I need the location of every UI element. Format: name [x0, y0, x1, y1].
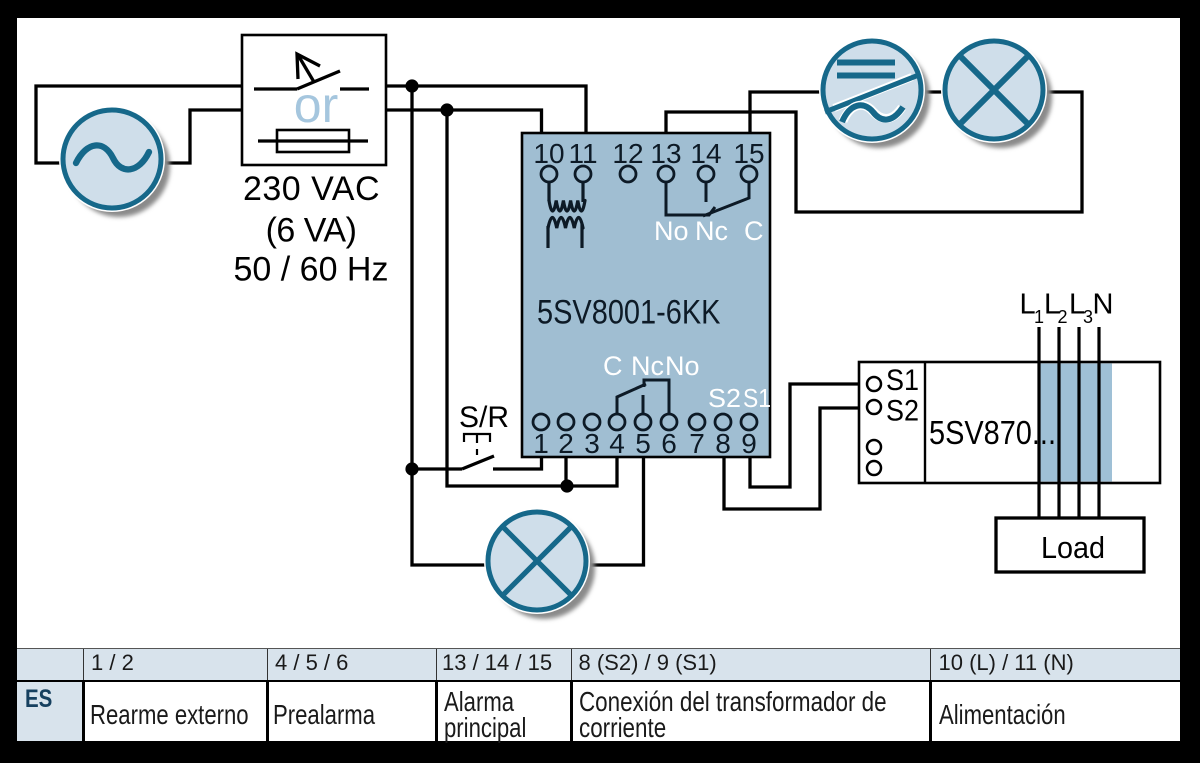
230 VAC source box: [242, 35, 386, 165]
wire: bottom lamp right side to terminal 5: [589, 458, 644, 565]
relay contact K1 (top, No Nc C): [666, 182, 749, 216]
svg-text:(6 VA): (6 VA): [266, 212, 357, 250]
blue pass-through band: [1040, 364, 1112, 482]
terminal S1: [867, 364, 919, 397]
label C Nc No (bottom): [603, 351, 700, 381]
legend table: [17, 648, 1180, 682]
svg-text:14: 14: [690, 138, 721, 169]
row label ES: [25, 687, 52, 712]
svg-text:7: 7: [689, 428, 705, 459]
wire: upper supply from box to terminal 11: [386, 86, 586, 133]
terminal circles 10-15: [541, 166, 757, 182]
lamp E1 (top): [941, 37, 1052, 148]
svg-text:C: C: [744, 216, 764, 246]
load box: [996, 518, 1144, 572]
svg-text:N: N: [1093, 289, 1114, 321]
junction dot B: [440, 103, 453, 116]
terminal S2: [867, 395, 919, 428]
wire: AC source left lead up and over to 230VAC box: [36, 86, 242, 163]
svg-text:3: 3: [1083, 307, 1093, 327]
svg-text:50 / 60 Hz: 50 / 60 Hz: [234, 251, 389, 289]
transformer T1: [548, 182, 585, 248]
AC source G1: [59, 106, 170, 217]
wire: supply drop to reset switch and bottom lamp: [412, 86, 485, 565]
terminal numbers 1-9: [533, 428, 757, 459]
label S2 S1: [708, 383, 771, 413]
wire: S/R switch to terminal 1: [493, 458, 542, 469]
svg-text:Nc: Nc: [695, 216, 728, 246]
svg-text:10: 10: [533, 138, 564, 169]
labels L1 L2 L3 N: [1020, 289, 1114, 328]
svg-text:3: 3: [584, 428, 600, 459]
svg-text:11: 11: [568, 138, 597, 169]
svg-text:5SV8001-6KK: 5SV8001-6KK: [537, 294, 721, 332]
svg-text:1: 1: [533, 428, 549, 459]
svg-text:8: 8: [715, 428, 731, 459]
lamp E2 (bottom): [484, 508, 595, 619]
svg-text:S1: S1: [743, 383, 771, 413]
svg-text:230 VAC: 230 VAC: [243, 170, 380, 208]
header labels: [91, 652, 134, 674]
svg-text:4: 4: [609, 428, 625, 459]
wire L3: [1077, 327, 1080, 519]
spare terminal circles: [867, 440, 881, 475]
terminal numbers 10-15: [533, 138, 764, 169]
buzzer H1: [819, 37, 930, 148]
switch S/R: [459, 401, 509, 469]
header column dividers: [83, 649, 84, 680]
svg-text:or: or: [294, 77, 338, 133]
label 230 VAC (6 VA) 50/60 Hz: [234, 170, 389, 289]
svg-text:2: 2: [558, 428, 574, 459]
relay contact K2 (bottom, C Nc No): [617, 380, 669, 414]
svg-text:No: No: [665, 351, 700, 381]
svg-text:1: 1: [1034, 307, 1044, 327]
wire L1: [1037, 327, 1040, 519]
wire L2: [1057, 327, 1060, 519]
body column dividers: [82, 682, 85, 741]
wire: terminal 2 stub: [564, 458, 567, 486]
wire: alarm loop terminal 13 to buzzer/lamp to terminal 15: [666, 92, 1082, 212]
svg-text:S2: S2: [886, 395, 919, 428]
svg-text:15: 15: [733, 138, 764, 169]
svg-text:5SV870...: 5SV870...: [929, 414, 1056, 451]
switch inside source box: [254, 87, 297, 90]
svg-text:S1: S1: [886, 364, 919, 397]
svg-text:C: C: [603, 351, 623, 381]
current transformer U2 5SV870: [859, 362, 1160, 483]
svg-text:No: No: [654, 216, 689, 246]
wire: terminal 9 to S1: [750, 384, 859, 487]
svg-text:13: 13: [650, 138, 681, 169]
junction dot D: [560, 479, 573, 492]
row texts: [90, 701, 249, 729]
svg-text:5: 5: [635, 428, 651, 459]
svg-text:6: 6: [661, 428, 677, 459]
wire: terminal 8 to S2: [724, 408, 859, 509]
label No Nc C: [654, 216, 764, 246]
junction dot C: [405, 462, 418, 475]
svg-text:Load: Load: [1041, 530, 1105, 565]
svg-text:12: 12: [612, 138, 643, 169]
wire: lower supply from box to terminal 10: [386, 110, 542, 133]
wire: junction dot to S/R switch: [412, 467, 462, 470]
junction dot A: [405, 79, 418, 92]
wire: supply drop to terminals 2 and 4: [447, 110, 617, 486]
wire: AC source right lead to 230VAC box lower input: [164, 110, 242, 163]
svg-text:2: 2: [1058, 307, 1068, 327]
svg-text:9: 9: [741, 428, 757, 459]
svg-text:Nc: Nc: [631, 351, 664, 381]
svg-text:S2: S2: [708, 383, 741, 413]
wire N: [1097, 327, 1100, 519]
terminal circles 1-9: [533, 414, 757, 430]
svg-text:S/R: S/R: [459, 401, 509, 434]
monitor relay U1 5SV8001-6KK: [522, 133, 770, 457]
fuse inside source box: [277, 130, 349, 152]
